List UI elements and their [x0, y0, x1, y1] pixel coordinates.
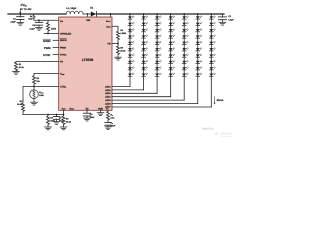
- watermark utsource: [215, 131, 233, 138]
- wire LED2 return: [112, 89, 144, 91]
- value label C4 10nF: [90, 113, 95, 119]
- wire OPENLED: [44, 33, 59, 35]
- node R7 junction: [47, 114, 49, 116]
- LED string 1 (10 LEDs): [128, 13, 134, 86]
- LED string 3 (10 LEDs): [155, 13, 161, 93]
- svg-text:21.1k: 21.1k: [19, 66, 25, 69]
- capacitor C3: [38, 20, 40, 22]
- resistor R3 60.4k: [22, 87, 24, 100]
- value label RB 51: [28, 15, 32, 21]
- LED string 2 (10 LEDs): [142, 13, 148, 90]
- svg-text:51Ω: 51Ω: [28, 18, 32, 21]
- capacitor C2 4.7uF: [222, 14, 224, 17]
- ground C5: [54, 121, 60, 123]
- wire RT: [16, 61, 59, 63]
- node FB junction: [117, 43, 119, 45]
- svg-text:2.2µF: 2.2µF: [30, 27, 36, 30]
- svg-text:R1: R1: [19, 63, 22, 66]
- ground C4: [84, 117, 91, 119]
- ground GND pin: [100, 110, 102, 112]
- net label PVIN 9V TO 40V: [20, 3, 32, 11]
- svg-text:R5: R5: [120, 46, 123, 49]
- node CTRL junction: [33, 86, 35, 88]
- value label R4 1.05M: [120, 29, 126, 35]
- LED string 5 (10 LEDs): [182, 13, 188, 100]
- ground R7: [45, 126, 52, 128]
- ground C2: [219, 21, 226, 23]
- svg-text:60.4k: 60.4k: [17, 103, 23, 106]
- value label R5 20.3k: [120, 46, 126, 52]
- svg-text:C1: C1: [13, 17, 17, 20]
- wire RISW to R4: [112, 26, 118, 27]
- resistor R1 21.1k: [15, 62, 18, 72]
- svg-text:D1: D1: [90, 6, 94, 9]
- wire LED7 return: [112, 106, 211, 108]
- ground C3: [36, 26, 43, 28]
- svg-text:OPENLED: OPENLED: [60, 32, 72, 35]
- value label R3 60.4k: [17, 100, 23, 106]
- capacitor CC 15nF: [107, 121, 109, 122]
- wire input rail PVIN: [8, 13, 66, 15]
- svg-text:R6: R6: [66, 117, 69, 120]
- resistor R6 24.3k: [62, 115, 65, 127]
- LED string 6 (10 LEDs): [196, 13, 202, 104]
- wire CTRL: [23, 86, 59, 88]
- svg-text:C3: C3: [32, 24, 36, 27]
- svg-text:LED1: LED1: [105, 85, 111, 88]
- svg-text:RC: RC: [111, 114, 113, 117]
- node OPENLED junction: [47, 33, 49, 35]
- value label C3 2.2uF: [30, 24, 36, 30]
- svg-text:RNTC: RNTC: [39, 91, 43, 94]
- resistor 100k OPENLED pull-up: [47, 20, 50, 33]
- svg-text:4.7µF: 4.7µF: [228, 19, 234, 22]
- svg-text:SYNC: SYNC: [60, 53, 67, 56]
- node SW junction: [87, 13, 89, 15]
- wire output rail: [96, 13, 224, 15]
- capacitor C4 10nF SS: [86, 110, 88, 111]
- ground R1: [13, 71, 20, 73]
- resistor RB 51: [33, 14, 35, 20]
- svg-text:100k: 100k: [50, 120, 55, 123]
- value label RC 2.1k: [111, 114, 116, 120]
- svg-text:100k: 100k: [51, 27, 57, 30]
- wire LED1 return: [112, 85, 130, 87]
- value label RNTC 100k: [39, 91, 44, 97]
- node C5 junction: [56, 114, 58, 116]
- svg-text:C2: C2: [228, 15, 232, 18]
- capacitor C5 47pF: [56, 115, 58, 117]
- LED string 7 (10 LEDs): [209, 13, 215, 107]
- wire LED6 return: [112, 103, 198, 105]
- node PVIN junction: [19, 13, 21, 15]
- svg-text:PWM: PWM: [44, 47, 51, 50]
- inductor L1 10uH: [66, 11, 83, 14]
- value label R6 24.3k: [66, 117, 72, 123]
- wire LED4 return: [112, 96, 171, 98]
- node C3 junction: [38, 19, 40, 21]
- svg-text:R2: R2: [36, 77, 39, 80]
- svg-text:2.1k: 2.1k: [111, 117, 116, 120]
- node VOUT junction: [110, 13, 112, 15]
- value label R2 10k: [36, 77, 40, 83]
- LED string 4 (10 LEDs): [169, 13, 175, 97]
- svg-text:2.2µF: 2.2µF: [10, 21, 16, 24]
- svg-text:LED5: LED5: [105, 99, 111, 102]
- wire SW stub: [87, 14, 89, 18]
- capacitor C1: [19, 14, 21, 17]
- svg-text:LED4: LED4: [105, 96, 111, 99]
- wire VREF: [34, 73, 59, 75]
- svg-text:C4: C4: [90, 113, 93, 116]
- svg-text:www.utsource.net: www.utsource.net: [221, 136, 233, 138]
- svg-text:CC: CC: [111, 122, 113, 125]
- node TSET junction: [63, 114, 65, 116]
- svg-text:1.05M: 1.05M: [120, 32, 126, 35]
- svg-text:9V TO 40V: 9V TO 40V: [20, 8, 32, 11]
- wire VIN: [34, 19, 59, 21]
- wire TSET net: [23, 114, 64, 116]
- svg-text:✳: ✳: [215, 131, 219, 136]
- value label CC 15nF: [111, 122, 116, 128]
- svg-text:20mA: 20mA: [217, 99, 224, 102]
- ground R5: [115, 56, 122, 58]
- svg-text:LED2: LED2: [105, 89, 111, 92]
- svg-text:R3: R3: [20, 100, 23, 103]
- svg-text:100k: 100k: [39, 94, 44, 97]
- wire LED3 return: [112, 92, 157, 94]
- svg-text:L1, 10µH: L1, 10µH: [66, 7, 76, 10]
- current label 20mA arrow: [214, 96, 216, 104]
- svg-text:SYNC: SYNC: [43, 54, 51, 57]
- wire PWM: [53, 46, 59, 48]
- wire FB: [112, 43, 118, 45]
- svg-text:R4: R4: [120, 29, 123, 32]
- svg-text:LED3: LED3: [105, 92, 111, 95]
- ground C1: [17, 21, 24, 23]
- wire LED5 return: [112, 99, 184, 101]
- value label R7 100k: [50, 117, 55, 123]
- value label C5 47pF: [59, 116, 64, 122]
- resistor R5 20.3k: [117, 44, 120, 58]
- svg-text:CTRL: CTRL: [60, 86, 67, 89]
- svg-text:PVIN: PVIN: [21, 3, 28, 7]
- svg-text:20.3k: 20.3k: [120, 49, 126, 52]
- thermistor RNTC 100k: [33, 87, 35, 90]
- svg-text:10nF: 10nF: [90, 116, 95, 119]
- wire TSET pin stub: [63, 110, 65, 114]
- svg-text:LED6: LED6: [105, 103, 111, 106]
- diode D1: [88, 13, 92, 15]
- svg-text:PWM: PWM: [60, 46, 66, 49]
- wire SHDN: [53, 39, 59, 41]
- resistor R4 1.05M: [117, 28, 120, 44]
- svg-text:24.3k: 24.3k: [66, 120, 72, 123]
- ground CC: [105, 126, 111, 128]
- resistor R2 10k: [33, 74, 36, 87]
- resistor R7 100k: [47, 115, 50, 127]
- svg-text:LT3598: LT3598: [82, 58, 94, 62]
- value label C1 2.2uF: [10, 17, 16, 23]
- svg-text:FB: FB: [107, 43, 110, 46]
- pin SHDN overline: [60, 38, 66, 40]
- wire SYNC: [53, 53, 59, 55]
- node PVIN input arrow: [19, 11, 21, 13]
- svg-text:3598 TA01: 3598 TA01: [202, 127, 214, 130]
- svg-text:SHDN: SHDN: [43, 40, 51, 43]
- value label R1 21.1k: [19, 63, 25, 69]
- wire VOUT stub: [110, 14, 112, 18]
- svg-text:utsource: utsource: [221, 131, 233, 135]
- ground R6: [60, 126, 67, 128]
- ground RNTC: [31, 101, 38, 103]
- value label C2 4.7uF: [228, 15, 234, 21]
- svg-text:10k: 10k: [36, 80, 40, 83]
- svg-text:SHDN: SHDN: [60, 39, 67, 42]
- resistor RC 2.1k VC: [107, 110, 110, 121]
- IC U1 LT3598 LED driver: [59, 17, 112, 110]
